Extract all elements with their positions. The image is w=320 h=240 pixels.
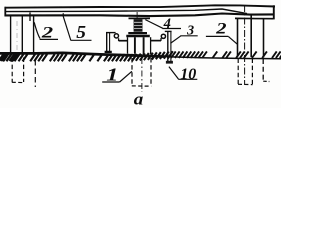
pedestal leg 1 [127,37,129,53]
post left pier [33,16,35,55]
ground hatch strokes right [171,51,285,58]
right bracket buried foot [166,61,173,64]
leader label 3 [170,36,181,44]
buried post left dashed [34,60,36,87]
left bracket channel line b [109,32,111,51]
tie rod right [151,40,161,42]
right bracket top cap [165,30,172,32]
slab bottom chord line [5,14,274,17]
right pier pile edge [250,14,252,57]
svg-text:а: а [134,89,144,108]
jack base bar [128,32,147,34]
pile P1 centerline [16,21,18,52]
slab right end cap [273,5,275,19]
buried pile left edge a [11,58,13,83]
shelf label 4 [162,28,181,30]
svg-text:1: 1 [106,64,118,84]
leader label 5 [63,17,70,40]
right pier bearing line [235,17,274,19]
svg-text:3: 3 [186,24,194,39]
left pin circle [114,34,118,38]
buried pile left bottom [12,81,24,83]
left bracket channel line a [106,32,108,52]
svg-text:2: 2 [215,20,226,37]
tie rod left hook [118,38,120,41]
tie rod right hook [160,38,162,41]
slab left end cap [4,7,6,17]
buried pile center edge a [131,58,133,86]
left bracket foot [105,51,112,53]
leader label 2 left [34,22,40,38]
shelf label 2 right [206,35,228,37]
right bracket channel line a [167,31,169,63]
leader label 1 [120,71,132,82]
jack top plate [129,17,151,19]
pile P1 left edge [10,16,12,55]
buried post right bottom hook [263,80,269,82]
jack body J [134,19,143,32]
leader label 10 [169,67,179,79]
leader label 4 [145,20,163,29]
tie rod left [119,40,128,42]
ground line [0,53,165,57]
pile P1 right edge [21,16,23,55]
jack centerline [136,12,138,19]
svg-text:4: 4 [163,16,171,32]
jack body slits [134,22,142,28]
shelf label 3 [180,35,197,37]
pedestal leg 3 [143,37,145,54]
right pier post [263,19,265,58]
pedestal leg 2 [134,37,136,54]
shelf label 1 [102,81,119,83]
buried post right dashed [262,59,264,81]
right pile centerline [244,5,246,85]
right bracket channel line b [170,31,172,62]
buried pile right edge b [251,59,253,85]
shelf label 2 left [40,38,58,40]
right pin circle [161,34,165,38]
leader label 2 right [228,36,237,44]
slab mid line [5,9,247,14]
underline label 10 [178,78,197,80]
pedestal top plate [126,35,150,38]
buried pile right edge a [237,59,239,85]
svg-text:2: 2 [41,25,54,42]
ground line right [165,57,281,59]
svg-text:10: 10 [180,66,196,83]
slab top chord line [5,5,276,7]
right pier stub 1 [237,19,239,57]
left bracket top cap [106,32,116,34]
slab joint stub [29,12,31,21]
pedestal leg 4 [150,37,152,54]
svg-text:5: 5 [76,23,86,43]
buried pile center centerline [141,58,143,92]
shelf label 5 [70,39,91,41]
buried pile left edge b [23,58,25,83]
leader stub at slab label 5 [62,13,64,17]
ground hatch strokes left [0,51,173,61]
buried pile center bottom [132,85,151,87]
buried pile center edge b [150,58,152,86]
buried pile right bottom [238,83,253,85]
